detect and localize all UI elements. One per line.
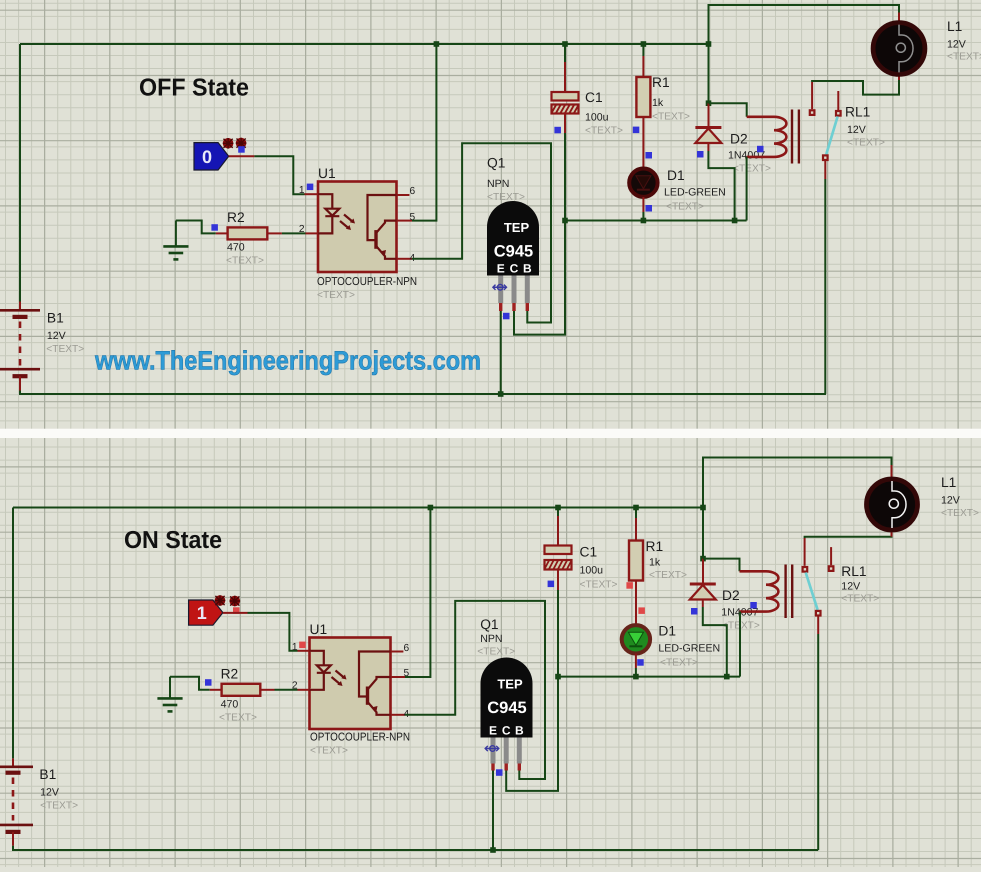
svg-text:B: B	[515, 724, 524, 738]
svg-text:1: 1	[292, 642, 298, 653]
wire R2 to opto pin2 P2	[275, 689, 298, 691]
svg-text:R1: R1	[652, 75, 670, 90]
wire opto pin5 stub P2	[391, 676, 406, 678]
node relay/D2 junction	[706, 100, 712, 106]
diode D2-P2 1N4007	[690, 584, 716, 600]
transistor Q1 body	[487, 201, 539, 276]
marker R1 bottom marker	[633, 127, 640, 134]
wire top sub-rail to lamp P2	[703, 458, 892, 559]
svg-text:6: 6	[410, 186, 416, 197]
node node at D2	[732, 218, 738, 224]
svg-text:E: E	[497, 262, 505, 276]
wire pin5 to top rail P2	[405, 508, 430, 678]
relay RL1-P2 switch contacts	[802, 538, 835, 634]
node D2 rail junction P2	[700, 505, 706, 511]
svg-text:<TEXT>: <TEXT>	[947, 52, 981, 63]
wire relay coil bottom to node P2	[739, 612, 741, 677]
marker D1 top marker	[646, 152, 653, 159]
wire opto pin1 stub P2	[298, 650, 310, 652]
node R1 rail junction	[641, 41, 647, 47]
logic probe P1-OFF	[194, 143, 229, 170]
marker D2 left marker	[697, 151, 704, 158]
svg-text:B1: B1	[39, 767, 56, 782]
svg-text:R2: R2	[227, 210, 245, 225]
wire probe pin stub P2	[223, 612, 248, 614]
svg-text:U1: U1	[310, 622, 328, 637]
svg-text:<TEXT>: <TEXT>	[477, 647, 515, 658]
node R1 rail junction P2	[633, 505, 639, 511]
svg-text:470: 470	[227, 242, 245, 254]
wire junction to relay coil P2	[703, 559, 740, 572]
marker C1 marker P2	[548, 581, 555, 588]
transistor Q1-P2 leads	[493, 738, 519, 771]
marker probe marker P2	[233, 607, 240, 614]
optocoupler U1 phototransistor	[368, 195, 397, 259]
ground GND2	[157, 677, 182, 712]
wire lamp to switch wire P2	[805, 532, 892, 539]
svg-text:L1: L1	[941, 475, 956, 490]
transistor Q1 leads	[501, 276, 528, 312]
resistor R2 body	[222, 684, 261, 696]
svg-text:OPTOCOUPLER-NPN: OPTOCOUPLER-NPN	[310, 732, 410, 744]
svg-text:12V: 12V	[47, 330, 67, 342]
svg-text:L1: L1	[947, 19, 962, 34]
svg-text:B: B	[523, 262, 532, 276]
node C1 rail junction	[562, 41, 568, 47]
wire C1 bottom lead	[564, 114, 566, 134]
svg-text:C: C	[502, 724, 511, 738]
resistor R1 body	[636, 77, 650, 117]
node pin5 rail junction	[434, 41, 440, 47]
wire Q1 collector to node	[514, 223, 565, 335]
wire C1 top wire	[564, 44, 566, 62]
wire top sub-rail to lamp	[709, 5, 900, 103]
svg-text:<TEXT>: <TEXT>	[46, 344, 84, 355]
wire opto pin5 stub	[397, 220, 413, 222]
marker D1 bottom marker P2	[637, 659, 644, 666]
marker D2 right marker P2	[750, 602, 757, 609]
svg-text:D2: D2	[722, 588, 740, 603]
svg-text:D1: D1	[667, 168, 685, 183]
wire bottom rail	[20, 391, 826, 395]
optocoupler U1 internal LED	[318, 194, 339, 233]
wire rail to D2 P2	[702, 559, 704, 583]
svg-text:<TEXT>: <TEXT>	[487, 192, 525, 203]
wire C1 top lead P2	[557, 516, 559, 546]
wire rail to D2	[708, 103, 710, 126]
wire probe to opto pin1 P2	[248, 613, 298, 651]
marker D2 left marker P2	[691, 608, 698, 615]
svg-text:1: 1	[299, 185, 305, 196]
svg-text:LED-GREEN: LED-GREEN	[658, 643, 720, 655]
wire switch to bottom rail P2	[817, 634, 819, 850]
svg-text:D1: D1	[658, 624, 676, 639]
marker Q1 emitter marker	[503, 313, 510, 320]
wire battery to top rail P2	[12, 508, 14, 759]
wire Q1 collector to node P2	[506, 679, 558, 791]
lamp L1-P2	[867, 479, 918, 530]
optocoupler U1 light arrows	[340, 215, 355, 231]
svg-text:<TEXT>: <TEXT>	[317, 290, 355, 301]
wire junction to relay coil	[709, 103, 747, 117]
svg-text:12V: 12V	[947, 39, 967, 51]
wire bottom rail P2	[13, 846, 818, 850]
marker probe marker	[238, 146, 245, 153]
wire opto pin4 stub	[397, 258, 413, 260]
optocoupler U1-P2 internal LED	[310, 651, 331, 690]
ground GND1	[163, 221, 188, 260]
node pin5 rail junction P2	[428, 505, 434, 511]
svg-text:100u: 100u	[580, 565, 604, 577]
svg-text:1k: 1k	[649, 557, 661, 569]
svg-text:RL1: RL1	[841, 564, 866, 579]
wire top rail P2	[13, 507, 703, 509]
node node at D1 P2	[633, 674, 639, 680]
marker R2 marker	[211, 224, 218, 231]
svg-text:C945: C945	[494, 243, 533, 261]
wire switch bottom stub	[824, 161, 826, 179]
lamp L1	[873, 23, 925, 75]
svg-text:C945: C945	[487, 699, 526, 717]
svg-text:<TEXT>: <TEXT>	[585, 126, 623, 137]
wire R2 left lead	[216, 232, 228, 234]
node node at C1 P2	[555, 674, 561, 680]
svg-text:LED-GREEN: LED-GREEN	[664, 187, 726, 199]
wire D2 anode to node	[708, 151, 734, 221]
panel separator band	[0, 429, 981, 438]
marker pin1 marker P2	[299, 642, 306, 649]
wire Q1 emitter to ground rail	[500, 311, 502, 394]
LED D1-P2	[622, 625, 650, 653]
svg-text:OFF State: OFF State	[139, 75, 249, 102]
wire switch to bottom rail	[824, 179, 826, 394]
wire gnd to R2	[176, 221, 216, 234]
wire lamp to switch wire	[812, 79, 899, 95]
wire opto pin6 stub	[397, 194, 410, 196]
wire top rail	[20, 43, 709, 45]
wire opto pin2 stub P2	[298, 689, 310, 691]
svg-text:TEP: TEP	[504, 220, 530, 235]
wire C1 top lead	[564, 62, 566, 92]
svg-text:NPN: NPN	[487, 178, 509, 190]
origin marker on Q1 emitter	[493, 284, 507, 290]
LED D1	[629, 169, 657, 197]
wire D1 to node P2	[635, 668, 637, 677]
wire opto pin6 stub P2	[391, 651, 404, 653]
svg-text:ON State: ON State	[124, 527, 222, 554]
wire Q1 emitter to ground rail P2	[492, 771, 494, 851]
svg-text:C: C	[510, 262, 519, 276]
capacitor C1 plates	[552, 92, 579, 114]
wire lamp bottom stub	[898, 75, 900, 80]
node emitter rail junction P2	[490, 847, 496, 853]
wire D1 to node	[642, 212, 644, 221]
wire D2 anode to node P2	[703, 607, 727, 677]
probe terminal pins P1-OFF	[223, 138, 247, 149]
svg-text:<TEXT>: <TEXT>	[40, 801, 78, 812]
wire R1 top wire	[642, 44, 644, 56]
node relay/D2 junction P2	[700, 556, 706, 562]
marker D1 top marker P2	[638, 607, 645, 614]
svg-text:<TEXT>: <TEXT>	[652, 112, 690, 123]
svg-text:1k: 1k	[652, 97, 664, 109]
svg-text:NPN: NPN	[480, 633, 502, 645]
relay RL1 switch blade (open)	[826, 117, 837, 155]
wire battery to top rail	[19, 44, 21, 302]
svg-text:<TEXT>: <TEXT>	[847, 138, 885, 149]
transistor Q1-P2 body	[481, 658, 533, 738]
svg-text:D2: D2	[730, 132, 748, 147]
resistor R2 body	[228, 227, 268, 239]
origin marker on Q1-P2 emitter	[485, 746, 499, 752]
svg-text:6: 6	[404, 643, 410, 654]
battery B1	[0, 758, 33, 845]
marker R1 bottom marker P2	[626, 582, 633, 589]
resistor R1-P2 body	[629, 541, 643, 581]
wire collector node wire	[565, 220, 747, 222]
svg-text:<TEXT>: <TEXT>	[580, 580, 618, 591]
wire C1 bottom lead P2	[557, 570, 559, 591]
marker C1 marker	[554, 127, 561, 134]
svg-text:OPTOCOUPLER-NPN: OPTOCOUPLER-NPN	[317, 276, 417, 288]
optocoupler U1-P2 phototransistor	[359, 652, 391, 715]
diode D2 1N4007	[695, 128, 721, 144]
wire R1 top lead	[642, 56, 644, 77]
svg-text:470: 470	[221, 699, 239, 711]
marker pin1 marker	[307, 184, 314, 191]
wire opto pin1 stub	[305, 193, 319, 195]
wire switch bottom stub P2	[817, 617, 819, 635]
wire lamp top stub P2	[891, 465, 893, 479]
svg-text:RL1: RL1	[845, 105, 870, 120]
svg-text:1: 1	[197, 603, 207, 623]
battery B1	[0, 302, 40, 391]
optocoupler U1-P2 light arrows	[332, 671, 347, 687]
wire D1 bottom lead	[642, 197, 644, 212]
relay RL1 coil	[747, 110, 799, 164]
svg-text:E: E	[489, 724, 497, 738]
svg-text:12V: 12V	[941, 495, 961, 507]
wire C1 top wire P2	[557, 508, 559, 517]
wire switch pole stub P2	[830, 547, 832, 565]
svg-text:<TEXT>: <TEXT>	[649, 570, 687, 581]
relay RL1-P2 switch blade (closed)	[806, 573, 818, 610]
wire D2 anode stub	[707, 143, 709, 151]
svg-text:2: 2	[292, 681, 298, 692]
svg-text:<TEXT>: <TEXT>	[841, 594, 879, 605]
capacitor C1-P2 plates	[545, 546, 572, 570]
svg-text:TEP: TEP	[497, 677, 523, 692]
svg-text:12V: 12V	[841, 581, 861, 593]
wire opto pin4 stub P2	[391, 714, 406, 716]
wire lamp bottom stub P2	[891, 531, 893, 537]
svg-text:<TEXT>: <TEXT>	[660, 658, 698, 669]
svg-text:<TEXT>: <TEXT>	[226, 256, 264, 267]
wire switch pole stub	[837, 91, 839, 110]
wire switch lamp stub P2	[804, 538, 806, 566]
node emitter rail junction	[498, 391, 504, 397]
svg-text:R2: R2	[221, 667, 239, 682]
node node at D1	[641, 218, 647, 224]
optocoupler U1-P2 body	[310, 638, 391, 730]
svg-text:U1: U1	[318, 166, 336, 181]
marker Q1 emitter marker P2	[496, 769, 503, 776]
wire D1 bottom lead P2	[635, 654, 637, 669]
svg-text:<TEXT>: <TEXT>	[733, 164, 771, 175]
svg-text:Q1: Q1	[487, 156, 505, 171]
wire opto pin2 stub	[306, 232, 319, 234]
wire pin5 to top rail	[412, 44, 436, 221]
svg-text:12V: 12V	[40, 787, 60, 799]
relay RL1-P2 coil	[740, 565, 793, 619]
svg-text:2: 2	[299, 224, 305, 235]
svg-text:C1: C1	[580, 545, 598, 560]
svg-text:12V: 12V	[847, 124, 867, 136]
svg-text:<TEXT>: <TEXT>	[941, 508, 979, 519]
node C1 rail junction P2	[555, 505, 561, 511]
wire D2 anode stub P2	[702, 600, 704, 608]
wire R2 right lead P2	[260, 689, 274, 691]
wire R1 to D1 lead P2	[635, 581, 637, 626]
wire pin4 to Q1 base P2	[405, 601, 545, 779]
relay RL1 switch contacts	[809, 82, 842, 179]
svg-text:0: 0	[202, 147, 212, 167]
node node at D2 P2	[724, 674, 730, 680]
node D2 rail junction	[706, 41, 712, 47]
logic probe P1-ON	[189, 600, 223, 625]
svg-text:Q1: Q1	[480, 617, 498, 632]
wire C1 to node	[564, 133, 566, 221]
wire pin4 to Q1 base	[412, 143, 551, 322]
svg-text:100u: 100u	[585, 112, 609, 124]
svg-text:<TEXT>: <TEXT>	[219, 713, 257, 724]
wire R1 to D1 lead	[642, 117, 644, 169]
optocoupler U1 body	[318, 182, 397, 273]
svg-text:<TEXT>: <TEXT>	[666, 202, 704, 213]
node node at C1	[562, 218, 568, 224]
probe terminal pins P1-ON	[215, 595, 240, 606]
wire relay coil bottom to node	[746, 157, 748, 221]
wire C1 to node P2	[557, 590, 559, 677]
wire R1 top wire P2	[635, 508, 637, 519]
wire R2 left lead P2	[210, 689, 222, 691]
wire R2 to opto pin2	[282, 232, 306, 234]
wire probe pin stub	[229, 155, 255, 157]
svg-text:C1: C1	[585, 90, 603, 105]
svg-text:www.TheEngineeringProjects.com: www.TheEngineeringProjects.com	[94, 346, 481, 376]
wire collector node wire P2	[558, 676, 740, 678]
svg-text:B1: B1	[47, 311, 64, 326]
marker D2 right marker	[757, 146, 764, 153]
wire gnd to R2 P2	[170, 677, 210, 690]
svg-text:<TEXT>: <TEXT>	[310, 746, 348, 757]
wire probe to opto pin1	[254, 156, 304, 194]
wire lamp top stub	[898, 13, 900, 23]
svg-text:R1: R1	[646, 539, 664, 554]
marker D1 bottom marker	[646, 205, 653, 212]
wire R2 right lead	[267, 232, 282, 234]
wire switch NC stub	[811, 82, 813, 109]
wire R1 top lead P2	[635, 518, 637, 541]
marker R2 marker P2	[205, 679, 212, 686]
